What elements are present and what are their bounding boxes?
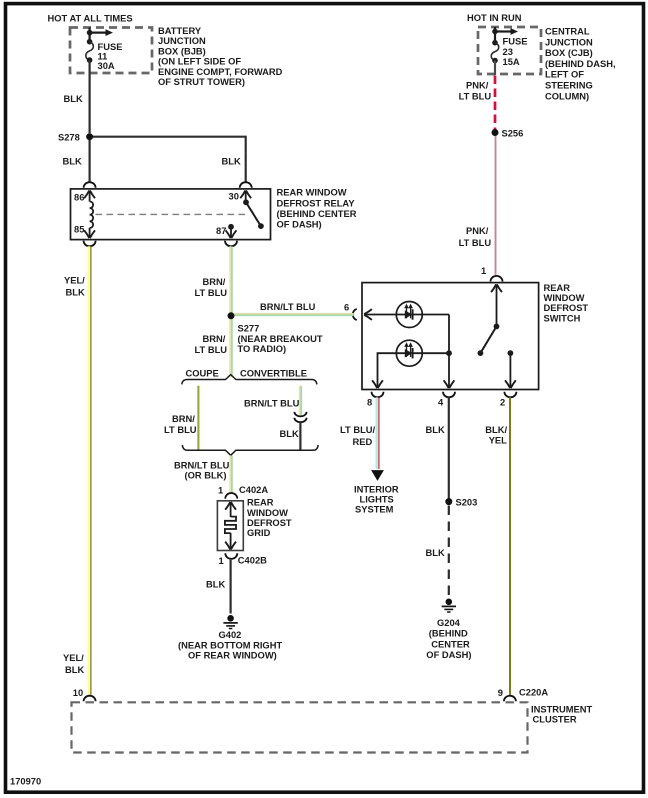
wire BRN/LT BLU: relay pin 87 down to S277	[229, 246, 231, 315]
svg-text:30: 30	[229, 192, 239, 202]
relay pin 86 arrow (up)	[89, 191, 91, 202]
connector arcs below switch pins 8 4 2	[372, 392, 384, 398]
wire BLK: fuse 11 to node S278	[88, 60, 90, 133]
svg-text:C402A: C402A	[239, 485, 268, 495]
svg-text:SWITCH: SWITCH	[544, 313, 581, 323]
svg-text:10: 10	[73, 688, 83, 698]
svg-text:DEFROST RELAY: DEFROST RELAY	[277, 198, 356, 208]
svg-text:YEL/: YEL/	[63, 653, 84, 663]
svg-text:BLK: BLK	[426, 548, 445, 558]
svg-text:BRN/LT BLU: BRN/LT BLU	[244, 398, 300, 408]
svg-text:SYSTEM: SYSTEM	[355, 505, 394, 515]
fuse F11	[87, 39, 93, 45]
node S278	[86, 133, 93, 140]
svg-text:G402: G402	[219, 630, 242, 640]
svg-text:8: 8	[367, 397, 372, 407]
svg-text:30A: 30A	[98, 61, 115, 71]
svg-text:4: 4	[438, 397, 444, 407]
wire feed into fuse 23	[494, 27, 496, 43]
LED lamp 1	[396, 302, 422, 328]
svg-text:PNK/: PNK/	[466, 226, 489, 236]
svg-text:(BEHIND CENTER: (BEHIND CENTER	[277, 209, 357, 219]
relay pin 85 arrow (down)	[89, 228, 91, 238]
in-line connector C (convertible)	[294, 412, 306, 416]
svg-text:BRN/LT BLU: BRN/LT BLU	[174, 460, 230, 470]
relay internal dashed link	[96, 213, 248, 215]
wire BLK: C402B to G402	[230, 560, 232, 614]
svg-text:YEL/: YEL/	[64, 276, 85, 286]
svg-text:COUPE: COUPE	[186, 369, 219, 379]
wire BLK convertible branch	[299, 421, 301, 449]
svg-text:LEFT OF: LEFT OF	[545, 70, 584, 80]
wire PNK/LT BLU solid: S256 to switch pin 1	[495, 133, 497, 275]
svg-text:PNK/: PNK/	[466, 81, 489, 91]
svg-text:6: 6	[344, 303, 349, 313]
svg-text:9: 9	[498, 688, 503, 698]
connector arc below relay pin 85	[84, 241, 96, 247]
wire BLK: S278 down to relay pin 86	[88, 137, 90, 182]
svg-text:FUSE: FUSE	[98, 42, 123, 52]
svg-text:LT BLU: LT BLU	[195, 288, 228, 298]
svg-text:BLK: BLK	[65, 665, 84, 675]
svg-text:LT BLU: LT BLU	[195, 345, 228, 355]
svg-text:INSTRUMENT: INSTRUMENT	[531, 704, 593, 714]
svg-text:CENTER: CENTER	[431, 639, 470, 649]
wire LED2 left-right through lamp	[378, 353, 450, 388]
svg-text:BRN/LT BLU: BRN/LT BLU	[260, 302, 316, 312]
svg-text:WINDOW: WINDOW	[247, 508, 288, 518]
svg-text:FUSE: FUSE	[503, 36, 528, 46]
grid element (heater)	[225, 502, 236, 510]
svg-text:(ON LEFT SIDE OF: (ON LEFT SIDE OF	[158, 57, 241, 67]
connector arc at switch pin 1	[491, 276, 503, 282]
svg-text:23: 23	[503, 47, 513, 57]
svg-text:REAR: REAR	[247, 498, 274, 508]
svg-text:BATTERY: BATTERY	[158, 26, 202, 36]
svg-text:BLK: BLK	[63, 156, 82, 166]
relay pin 30 arrow (up) and contact	[245, 191, 247, 203]
svg-text:BRN/: BRN/	[203, 277, 226, 287]
junction node in switch	[446, 350, 452, 356]
svg-text:JUNCTION: JUNCTION	[545, 37, 593, 47]
svg-text:OF REAR WINDOW): OF REAR WINDOW)	[188, 651, 277, 661]
connector arc at switch pin 6	[353, 309, 357, 320]
ground G402	[227, 615, 234, 622]
svg-text:REAR WINDOW: REAR WINDOW	[277, 188, 347, 198]
svg-text:BLK: BLK	[426, 425, 445, 435]
svg-text:RED: RED	[353, 437, 373, 447]
node S256	[492, 129, 499, 136]
svg-text:BRN/: BRN/	[172, 414, 195, 424]
svg-text:HOT AT ALL TIMES: HOT AT ALL TIMES	[48, 14, 133, 24]
wire BRN/LT BLU coupe branch	[197, 386, 199, 450]
svg-text:TO RADIO): TO RADIO)	[238, 344, 287, 354]
wire BRN/LT BLU horizontal: S277 to switch pin 6	[231, 313, 354, 315]
wire BLK: switch pin 4 to S203	[448, 397, 450, 498]
off-page arrow to interior lights system	[371, 470, 384, 481]
switch pin 1 arrow (up) and pole	[496, 284, 498, 326]
svg-text:1: 1	[218, 486, 223, 496]
relay pin 87 contact and arrow (down)	[228, 224, 234, 230]
svg-text:1: 1	[481, 266, 486, 276]
connector arc below relay pin 87	[225, 241, 237, 247]
svg-text:GRID: GRID	[247, 528, 271, 538]
svg-text:YEL: YEL	[489, 435, 507, 445]
wire BRN/LT BLU convertible branch	[299, 386, 301, 416]
svg-text:LT BLU: LT BLU	[164, 425, 197, 435]
svg-text:BLK: BLK	[222, 156, 241, 166]
svg-text:BLK: BLK	[280, 429, 299, 439]
svg-text:BRN/: BRN/	[203, 334, 226, 344]
svg-text:STEERING: STEERING	[545, 81, 593, 91]
svg-text:85: 85	[74, 225, 84, 235]
svg-text:OF DASH): OF DASH)	[426, 650, 471, 660]
relay switch blade 30-87	[246, 202, 261, 226]
wire feed into fuse 11	[88, 28, 90, 43]
fuse F23	[492, 40, 498, 46]
svg-text:S277: S277	[238, 324, 260, 334]
wire PNK/LT BLU dashed: CJB to S256	[494, 76, 497, 131]
svg-text:2: 2	[500, 397, 505, 407]
svg-text:15A: 15A	[503, 57, 520, 67]
svg-text:C402B: C402B	[238, 556, 267, 566]
wire BLK: S278 right and down to relay pin 30	[90, 137, 246, 182]
svg-text:86: 86	[74, 193, 84, 203]
svg-text:OF STRUT TOWER): OF STRUT TOWER)	[158, 77, 245, 87]
svg-text:S278: S278	[58, 132, 80, 142]
svg-text:DEFROST: DEFROST	[247, 518, 292, 528]
svg-text:REAR: REAR	[544, 283, 571, 293]
svg-text:S203: S203	[456, 497, 478, 507]
bus arrow at fuse 11	[90, 31, 106, 33]
switch contact to pin 2	[508, 350, 514, 356]
wire BRN/LT BLU: S277 down to branch brace	[229, 316, 231, 377]
relay K1 box: rear window defrost relay	[71, 189, 271, 240]
bus arrow at fuse 23	[495, 30, 511, 32]
svg-text:CLUSTER: CLUSTER	[533, 715, 577, 725]
svg-text:BOX (CJB): BOX (CJB)	[545, 48, 593, 58]
wire BRN/LT BLU (OR BLK): brace to C402A	[229, 455, 231, 492]
svg-text:S256: S256	[502, 128, 524, 138]
svg-text:BOX (BJB): BOX (BJB)	[158, 46, 206, 56]
svg-text:LT BLU: LT BLU	[459, 92, 492, 102]
rear window defrost grid box	[217, 501, 243, 551]
rear window defrost switch box	[362, 283, 539, 390]
wire BLK dashed: S203 to G204	[448, 506, 450, 597]
svg-text:BLK: BLK	[206, 579, 225, 589]
connector arc at relay pin 30	[240, 182, 252, 188]
connector C402B	[225, 553, 237, 559]
central junction box CJB (dashed)	[478, 27, 541, 74]
svg-text:CONVERTIBLE: CONVERTIBLE	[240, 369, 307, 379]
svg-text:G204: G204	[437, 618, 461, 628]
node S203	[445, 498, 452, 505]
svg-text:DEFROST: DEFROST	[544, 303, 589, 313]
wire LED1 to pin 4 drop	[448, 315, 450, 389]
instrument cluster box (dashed)	[72, 702, 528, 752]
svg-text:HOT IN RUN: HOT IN RUN	[467, 13, 522, 23]
wire LT BLU/RED: switch pin 8 to interior lights	[376, 397, 378, 469]
svg-text:(BEHIND DASH,: (BEHIND DASH,	[545, 59, 616, 69]
relay coil	[90, 202, 94, 228]
svg-text:LIGHTS: LIGHTS	[360, 495, 394, 505]
svg-text:OF DASH): OF DASH)	[277, 220, 322, 230]
svg-text:WINDOW: WINDOW	[544, 293, 585, 303]
svg-text:(BEHIND: (BEHIND	[429, 629, 468, 639]
wire BLK/YEL: switch pin 2 to cluster pin 9	[509, 397, 511, 695]
svg-text:170970: 170970	[10, 777, 41, 787]
svg-text:INTERIOR: INTERIOR	[354, 484, 399, 494]
wire: fuse 23 to CJB edge	[494, 61, 496, 76]
battery junction box BJB (dashed)	[70, 28, 152, 74]
svg-text:1: 1	[219, 556, 224, 566]
merge brace	[182, 445, 318, 455]
svg-text:(NEAR BOTTOM RIGHT: (NEAR BOTTOM RIGHT	[178, 640, 282, 650]
svg-text:BLK: BLK	[64, 94, 83, 104]
svg-text:87: 87	[216, 226, 226, 236]
svg-text:LT BLU/: LT BLU/	[340, 425, 376, 435]
connector arc at relay pin 86	[84, 182, 96, 188]
svg-text:C220A: C220A	[519, 687, 548, 697]
ground G204	[446, 599, 453, 606]
svg-text:ENGINE COMPT, FORWARD: ENGINE COMPT, FORWARD	[158, 67, 283, 77]
svg-text:(NEAR BREAKOUT: (NEAR BREAKOUT	[238, 334, 323, 344]
svg-text:COLUMN): COLUMN)	[545, 91, 589, 101]
svg-text:(OR BLK): (OR BLK)	[185, 471, 227, 481]
switch blade	[480, 326, 496, 353]
switch pin 6 arrow (left)	[364, 309, 372, 320]
svg-text:LT BLU: LT BLU	[459, 238, 492, 248]
wire YEL/BLK: relay pin 85 down to cluster pin 10	[88, 246, 91, 695]
node S277	[228, 312, 235, 319]
LED lamp 2	[396, 340, 422, 366]
svg-text:JUNCTION: JUNCTION	[158, 36, 206, 46]
svg-text:BLK/: BLK/	[485, 425, 507, 435]
svg-text:BLK: BLK	[66, 288, 85, 298]
svg-text:CENTRAL: CENTRAL	[545, 27, 590, 37]
